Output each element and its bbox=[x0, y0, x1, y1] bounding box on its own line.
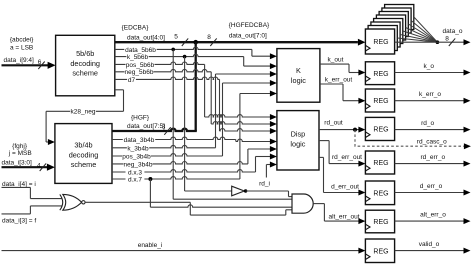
svg-text:REG: REG bbox=[373, 248, 388, 255]
reg stack (pipeline registers) bbox=[385, 5, 414, 30]
wire k28_neg feedback to 3b/4b bbox=[115, 89, 124, 91]
svg-text:{HGF}: {HGF} bbox=[131, 115, 150, 122]
svg-text:k_o: k_o bbox=[424, 63, 435, 70]
svg-text:rd_out: rd_out bbox=[324, 120, 343, 127]
svg-text:K: K bbox=[296, 66, 301, 75]
svg-text:rd_casc_o: rd_casc_o bbox=[417, 139, 447, 146]
svg-text:d7: d7 bbox=[128, 77, 136, 84]
wire k_3b4b up to K logic bbox=[112, 145, 216, 147]
svg-text:data_out[7:0]: data_out[7:0] bbox=[229, 33, 267, 40]
wire neg_5b6b to Disp logic bbox=[115, 69, 211, 71]
wire data_out bus (thick) to REG1 bbox=[115, 41, 358, 43]
svg-text:3: 3 bbox=[162, 124, 166, 131]
svg-text:data_i[3:0]: data_i[3:0] bbox=[2, 159, 33, 166]
buffer U2 bbox=[232, 186, 245, 196]
svg-text:rd_err_o: rd_err_o bbox=[421, 154, 446, 161]
register REG3 bbox=[365, 89, 394, 112]
svg-text:rd_err_out: rd_err_out bbox=[332, 154, 362, 161]
wire rd_out to REG4 bbox=[319, 129, 359, 131]
block 3b/4b decoding scheme bbox=[55, 124, 112, 184]
svg-text:REG: REG bbox=[373, 160, 388, 167]
svg-text:data_i[9:4]: data_i[9:4] bbox=[4, 57, 35, 64]
svg-text:REG: REG bbox=[373, 98, 388, 105]
wire k_err_out to REG3 bbox=[320, 83, 343, 85]
svg-text:j = MSB: j = MSB bbox=[8, 150, 32, 157]
svg-text:rd_o: rd_o bbox=[421, 120, 434, 127]
wire d.x.3 to Disp logic bbox=[112, 170, 256, 172]
svg-text:8: 8 bbox=[445, 36, 449, 43]
svg-text:d.x.3: d.x.3 bbox=[128, 170, 142, 177]
svg-text:neg_3b4b: neg_3b4b bbox=[124, 161, 153, 168]
svg-text:5b/6b: 5b/6b bbox=[76, 49, 94, 58]
svg-text:k_err_o: k_err_o bbox=[419, 91, 441, 98]
svg-text:{HGFEDCBA}: {HGFEDCBA} bbox=[229, 22, 270, 29]
wire XOR output to AND gate bbox=[85, 201, 190, 203]
svg-text:data_i[4] = i: data_i[4] = i bbox=[2, 181, 36, 188]
svg-text:REG: REG bbox=[373, 39, 388, 46]
wire d.x.7 up to K logic bbox=[112, 177, 240, 179]
wire k_out to REG2 bbox=[320, 63, 349, 65]
svg-text:d.x.7: d.x.7 bbox=[128, 177, 142, 184]
svg-text:valid_o: valid_o bbox=[419, 241, 440, 248]
wire alt_err_o output bbox=[395, 220, 465, 222]
svg-text:alt_err_o: alt_err_o bbox=[420, 211, 446, 218]
svg-text:data_i[3] = f: data_i[3] = f bbox=[2, 217, 36, 224]
wire data_5b6b branch down to AND gate bbox=[172, 49, 174, 199]
svg-text:k_3b4b: k_3b4b bbox=[127, 145, 149, 152]
svg-text:pos_3b4b: pos_3b4b bbox=[122, 154, 151, 161]
and gate U4 bbox=[292, 194, 313, 213]
svg-text:{abcdei}: {abcdei} bbox=[10, 37, 34, 44]
svg-text:k_5b6b: k_5b6b bbox=[127, 54, 149, 61]
wire data_i[4] to XOR bbox=[2, 186, 31, 188]
wire alt_err_out to REG7 bbox=[313, 203, 324, 205]
wire rd_err_o output bbox=[395, 163, 465, 165]
svg-text:REG: REG bbox=[373, 71, 388, 78]
wire enable_i to REG8 bbox=[2, 250, 360, 252]
svg-text:logic: logic bbox=[290, 140, 305, 149]
svg-text:{EDCBA}: {EDCBA} bbox=[122, 25, 150, 32]
svg-text:data_out[7:5]: data_out[7:5] bbox=[127, 123, 165, 130]
svg-text:k_out: k_out bbox=[328, 57, 344, 64]
wire rd_casc_o (dashed) bbox=[355, 130, 465, 147]
wire k_err_o output bbox=[395, 100, 465, 102]
register REG1 bbox=[365, 29, 394, 54]
svg-text:k_err_out: k_err_out bbox=[325, 77, 353, 84]
svg-text:logic: logic bbox=[291, 76, 306, 85]
wire data_3b4b to Disp logic bbox=[112, 137, 236, 139]
svg-text:enable_i: enable_i bbox=[138, 242, 163, 249]
svg-text:k28_neg: k28_neg bbox=[71, 109, 96, 116]
svg-text:REG: REG bbox=[373, 127, 388, 134]
svg-text:scheme: scheme bbox=[72, 69, 98, 78]
wire data_5b6b to K logic bbox=[115, 47, 252, 49]
svg-text:alt_err_out: alt_err_out bbox=[328, 213, 359, 220]
svg-text:decoding: decoding bbox=[70, 59, 100, 68]
wire valid_o output bbox=[395, 250, 465, 252]
svg-text:3b/4b: 3b/4b bbox=[74, 141, 92, 150]
block K logic bbox=[277, 49, 320, 103]
svg-text:{fghj}: {fghj} bbox=[12, 143, 28, 150]
register REG6 bbox=[365, 181, 394, 205]
wire d7 to Disp logic bbox=[115, 77, 220, 79]
svg-text:5: 5 bbox=[174, 34, 178, 41]
svg-text:d_err_out: d_err_out bbox=[331, 184, 359, 191]
block 5b/6b decoding scheme bbox=[56, 35, 115, 96]
svg-text:data_5b6b: data_5b6b bbox=[125, 47, 156, 54]
wire k_o output bbox=[395, 72, 465, 74]
svg-text:Disp: Disp bbox=[291, 130, 306, 139]
svg-text:rd_i: rd_i bbox=[259, 180, 270, 187]
wire buffer output to AND gate bbox=[246, 190, 289, 192]
svg-text:neg_5b6b: neg_5b6b bbox=[125, 69, 154, 76]
svg-text:a = LSB: a = LSB bbox=[10, 45, 33, 52]
wire neg_3b4b to Disp logic bbox=[112, 161, 248, 163]
register REG7 bbox=[365, 210, 394, 233]
register REG4 bbox=[365, 117, 394, 140]
svg-text:8: 8 bbox=[207, 34, 211, 41]
wire reg stack fan to data_o bbox=[414, 17, 438, 42]
wire pos_5b6b to Disp logic bbox=[115, 62, 205, 64]
svg-text:d_err_o: d_err_o bbox=[420, 183, 443, 190]
wire data_out[7:5] (thick) from 3b/4b bbox=[112, 129, 197, 131]
svg-text:pos_5b6b: pos_5b6b bbox=[126, 62, 155, 69]
wire k_5b6b to K logic bbox=[115, 54, 244, 56]
wire d_err_o output bbox=[395, 192, 465, 194]
svg-text:data_out[4:0]: data_out[4:0] bbox=[127, 34, 165, 41]
wire k_5b6b branch down to buffer bbox=[184, 57, 186, 191]
register REG5 bbox=[365, 151, 394, 174]
svg-text:data_o: data_o bbox=[443, 28, 463, 35]
wire rd_o output bbox=[395, 129, 465, 131]
svg-text:scheme: scheme bbox=[71, 160, 97, 169]
wire data_o output bbox=[395, 41, 465, 43]
svg-text:REG: REG bbox=[373, 219, 388, 226]
register REG2 bbox=[365, 62, 394, 85]
wire data_i[3:0] input bus bbox=[2, 166, 48, 168]
wire rd_err_out to REG5 bbox=[319, 140, 329, 142]
wire pos_3b4b up to K logic bbox=[112, 154, 223, 156]
block Disp logic bbox=[277, 111, 319, 170]
wire data_i[9:4] input bus bbox=[2, 64, 49, 66]
wire data_i[3] to XOR bbox=[2, 213, 31, 215]
wire d_err_out to REG6 bbox=[319, 156, 324, 158]
svg-text:decoding: decoding bbox=[69, 150, 99, 159]
wire d.x.7 branch down to AND gate bbox=[149, 179, 151, 207]
wire rd_i into Disp logic bbox=[265, 165, 267, 178]
register REG8 bbox=[365, 239, 394, 263]
svg-text:REG: REG bbox=[373, 190, 388, 197]
svg-text:data_3b4b: data_3b4b bbox=[124, 137, 155, 144]
xor gate U3 bbox=[63, 194, 82, 210]
